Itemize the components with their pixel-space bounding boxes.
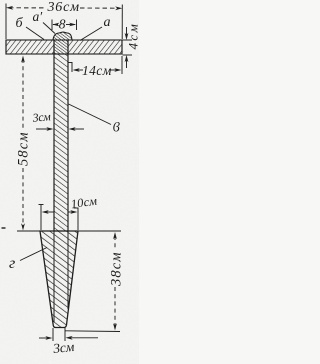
extension line at cone bottom <box>65 330 120 333</box>
dim 10cm extension lines <box>39 205 79 231</box>
svg-text:8: 8 <box>59 17 66 32</box>
dim 14cm left tick <box>69 62 73 72</box>
text 14cm <box>82 63 112 78</box>
text 58cm rotated <box>16 131 32 166</box>
dim 3cm (tip) extension ticks <box>53 328 65 341</box>
svg-text:3см: 3см <box>31 109 52 125</box>
dim 8 ticks <box>52 20 77 31</box>
dim 38cm dashed line <box>113 232 117 331</box>
svg-text:36см: 36см <box>47 0 80 15</box>
leader for label v <box>69 104 112 125</box>
svg-text:а′: а′ <box>33 9 44 24</box>
stem <box>54 40 68 231</box>
cross bar right arm <box>68 40 122 54</box>
stem section inside bar <box>53 40 69 54</box>
svg-text:38см: 38см <box>109 251 125 287</box>
label b <box>16 16 24 31</box>
extension line at cone top left <box>17 230 40 232</box>
dim 58cm dashed line <box>21 56 25 231</box>
dim 3cm (tip) arrows <box>39 336 98 340</box>
dim 10cm arrows <box>42 210 78 214</box>
stray mark left <box>2 227 6 229</box>
text 4cm rotated <box>125 22 140 50</box>
text 38cm rotated <box>109 251 125 287</box>
rounded dome head <box>53 32 72 40</box>
cross bar left arm <box>6 40 54 54</box>
label a' <box>33 9 44 24</box>
svg-text:г: г <box>9 255 15 272</box>
stem edges continuing through cone <box>54 231 68 322</box>
dim 36cm left extension line <box>5 4 7 40</box>
dim 4cm extension lines <box>123 40 133 55</box>
extension line at cone top right <box>78 230 121 232</box>
dim 36cm right extension line <box>121 5 123 40</box>
text 10cm <box>70 194 98 212</box>
leader for label a' <box>43 23 55 34</box>
label g <box>9 255 15 272</box>
leader for label g <box>20 248 47 261</box>
svg-text:3см: 3см <box>52 339 76 356</box>
dim 4cm arrows <box>125 27 129 68</box>
dim 36cm dashed line <box>6 6 122 10</box>
dim 14cm right extension <box>121 56 123 74</box>
text 36cm <box>47 0 80 15</box>
dim 8 arrows <box>52 23 76 27</box>
cone (pointed tip block) <box>40 231 78 328</box>
text 8 <box>59 17 66 32</box>
paper grain <box>0 0 139 364</box>
label a <box>104 15 111 30</box>
leader for label b <box>26 27 44 40</box>
svg-text:14см: 14см <box>82 63 112 78</box>
svg-text:4см: 4см <box>125 22 139 50</box>
dim 14cm arrows <box>73 68 122 72</box>
leader for label a <box>80 27 102 41</box>
dim 3cm (stem) arrows <box>36 127 84 131</box>
svg-text:ϐ: ϐ <box>113 121 120 136</box>
svg-text:58см: 58см <box>16 131 32 166</box>
svg-text:б: б <box>16 16 24 31</box>
svg-text:а: а <box>104 15 111 30</box>
text 3cm tip <box>52 339 76 356</box>
text 3cm stem <box>31 109 52 125</box>
label v <box>113 121 120 136</box>
